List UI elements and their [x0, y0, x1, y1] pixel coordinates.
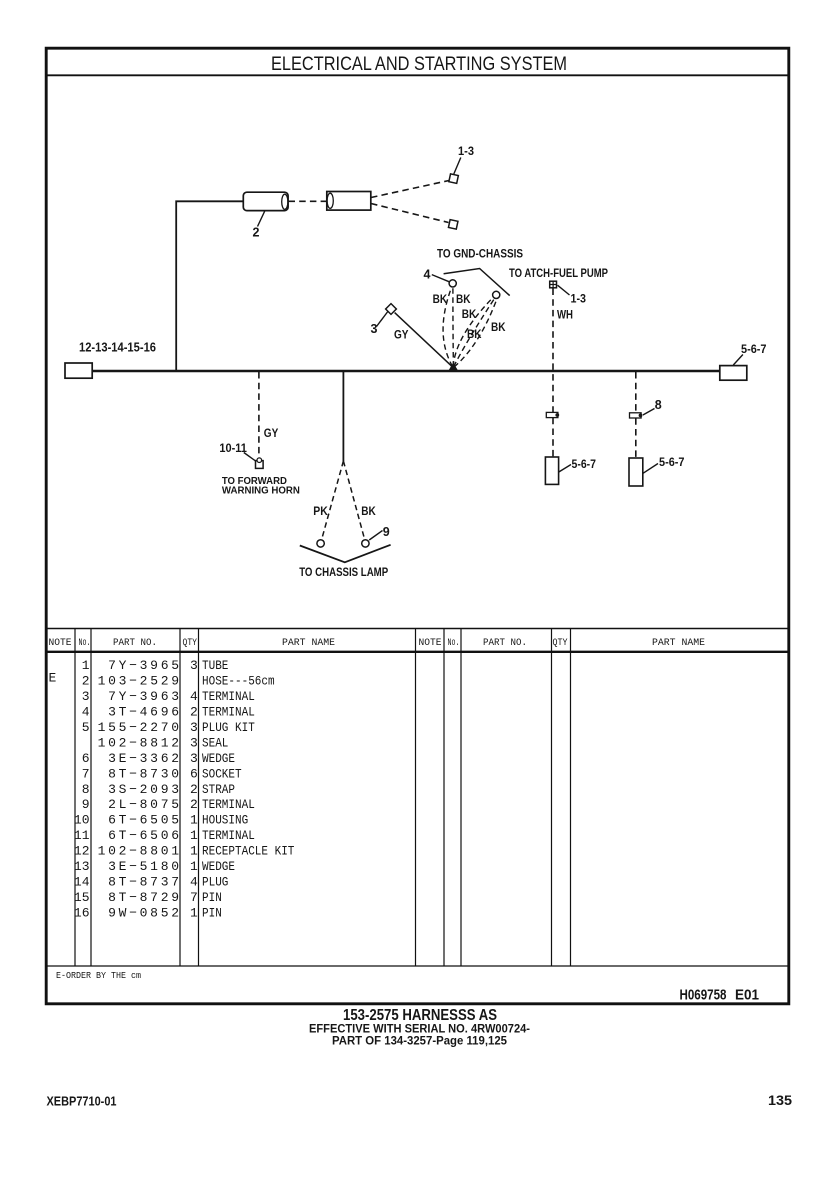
wire GY solid [395, 313, 453, 368]
svg-text:102−8812: 102−8812 [98, 736, 182, 751]
svg-text:9: 9 [82, 797, 90, 812]
wire WH dashed drop [552, 289, 554, 413]
connector 5-6-7 (fuel drop) [545, 457, 558, 484]
svg-text:6: 6 [82, 751, 90, 766]
leader for label 5-6-7 (fuel drop) [559, 465, 571, 473]
svg-text:BK: BK [462, 309, 477, 321]
svg-text:9: 9 [383, 525, 390, 539]
svg-text:GY: GY [264, 428, 279, 440]
svg-text:3: 3 [371, 322, 378, 336]
svg-text:SEAL: SEAL [202, 736, 228, 751]
svg-text:2: 2 [190, 705, 198, 720]
leader for label 2 [258, 211, 266, 227]
svg-text:8: 8 [82, 782, 90, 797]
connector square lower 1-3 [448, 220, 457, 229]
svg-text:TERMINAL: TERMINAL [202, 797, 255, 812]
svg-text:4: 4 [424, 268, 431, 282]
svg-text:135: 135 [768, 1093, 793, 1108]
svg-text:3: 3 [190, 720, 198, 735]
svg-text:12-13-14-15-16: 12-13-14-15-16 [79, 341, 156, 355]
pointer line TO GND-CHASSIS [444, 269, 510, 296]
inline connector 8 [630, 413, 643, 418]
wire GY dashed drop to horn [258, 372, 260, 457]
wire BK dashed (lamp) [343, 461, 364, 540]
svg-text:NOTE: NOTE [419, 638, 442, 649]
svg-text:102−8801: 102−8801 [98, 844, 182, 859]
svg-text:E: E [49, 671, 57, 686]
svg-text:ELECTRICAL AND STARTING SYSTEM: ELECTRICAL AND STARTING SYSTEM [271, 54, 567, 75]
svg-text:12: 12 [74, 844, 90, 859]
svg-text:PART NO.: PART NO. [483, 638, 527, 649]
svg-text:GY: GY [394, 329, 409, 341]
svg-text:WEDGE: WEDGE [202, 859, 235, 874]
svg-text:8T−8730: 8T−8730 [108, 766, 182, 781]
page frame [46, 48, 789, 1004]
svg-text:TO CHASSIS LAMP: TO CHASSIS LAMP [299, 567, 388, 579]
svg-text:NOTE: NOTE [49, 638, 72, 649]
svg-text:QTY: QTY [183, 638, 198, 649]
svg-text:6: 6 [190, 766, 198, 781]
svg-text:2: 2 [82, 674, 90, 689]
chevron pointer chassis lamp [300, 545, 391, 563]
connector 5-6-7 (right end) [720, 366, 747, 381]
svg-text:7Y−3965: 7Y−3965 [108, 658, 182, 673]
svg-text:3E−5180: 3E−5180 [108, 859, 182, 874]
svg-text:1: 1 [190, 813, 198, 828]
svg-text:WARNING HORN: WARNING HORN [222, 485, 300, 496]
svg-text:8T−8729: 8T−8729 [108, 890, 182, 905]
connector 12-13-14-15-16 [65, 363, 92, 378]
svg-text:5-6-7: 5-6-7 [659, 457, 685, 469]
svg-text:3: 3 [190, 658, 198, 673]
svg-text:BK: BK [456, 294, 471, 306]
svg-text:10: 10 [74, 813, 90, 828]
svg-text:4: 4 [190, 875, 198, 890]
svg-text:7: 7 [190, 890, 198, 905]
connector diamond 3 [386, 304, 397, 315]
svg-text:15: 15 [74, 890, 90, 905]
svg-text:PART OF 134-3257-Page 119,125: PART OF 134-3257-Page 119,125 [332, 1034, 507, 1048]
wire BK pair to ring 4 (right) [452, 288, 455, 367]
svg-text:3T−4696: 3T−4696 [108, 705, 182, 720]
svg-text:3E−3362: 3E−3362 [108, 751, 182, 766]
svg-text:1: 1 [190, 905, 198, 920]
leader for label 8 [643, 409, 655, 416]
svg-text:TERMINAL: TERMINAL [202, 705, 255, 720]
svg-text:TERMINAL: TERMINAL [202, 828, 255, 843]
connector 10-11 [256, 458, 264, 468]
svg-text:HOUSING: HOUSING [202, 813, 248, 828]
wire: dashed link between tubes [289, 200, 327, 202]
title separator line [45, 74, 790, 76]
svg-text:7Y−3963: 7Y−3963 [108, 689, 182, 704]
svg-text:2L−8075: 2L−8075 [108, 797, 182, 812]
table top border [45, 628, 790, 630]
table column lines [75, 629, 571, 967]
svg-text:BK: BK [491, 322, 506, 334]
connector 5-6-7 (drop 8) [629, 458, 643, 486]
svg-text:1: 1 [190, 859, 198, 874]
svg-text:PART NAME: PART NAME [282, 638, 335, 649]
svg-text:103−2529: 103−2529 [98, 674, 182, 689]
wire dashed drop 8 [635, 372, 637, 413]
svg-text:H069758: H069758 [680, 988, 727, 1004]
wire: left branch up to tube [176, 201, 243, 370]
svg-text:STRAP: STRAP [202, 782, 235, 797]
wire BK pair to ring 4 (left) [443, 288, 453, 367]
svg-text:SOCKET: SOCKET [202, 766, 242, 781]
leader for label 10-11 [244, 453, 256, 462]
svg-text:3: 3 [82, 689, 90, 704]
svg-text:1: 1 [190, 828, 198, 843]
svg-text:3S−2093: 3S−2093 [108, 782, 182, 797]
svg-text:9W−0852: 9W−0852 [108, 905, 182, 920]
svg-text:8T−8737: 8T−8737 [108, 875, 182, 890]
svg-text:WEDGE: WEDGE [202, 751, 235, 766]
leader for label 5-6-7 (right end) [733, 355, 743, 366]
wire BK 2 to ring (right) [454, 299, 495, 367]
table footer separator [45, 965, 790, 967]
svg-text:1-3: 1-3 [458, 146, 474, 158]
wire: dashed to upper connector 1-3 [371, 181, 449, 198]
ring terminal lamp right 9 [362, 540, 369, 547]
wire PK dashed [322, 461, 344, 540]
svg-text:BK: BK [361, 506, 376, 518]
svg-text:1: 1 [190, 844, 198, 859]
svg-text:BK: BK [433, 294, 448, 306]
table rows [49, 658, 295, 920]
svg-text:HOSE---56cm: HOSE---56cm [202, 674, 275, 689]
svg-text:QTY: QTY [553, 638, 568, 649]
svg-text:PART NAME: PART NAME [652, 638, 705, 649]
svg-text:2: 2 [190, 797, 198, 812]
leader for label 5-6-7 (drop 8) [643, 464, 658, 474]
tube 2 (left) [243, 192, 288, 210]
footer H069758 E01 [680, 988, 760, 1004]
svg-text:RECEPTACLE KIT: RECEPTACLE KIT [202, 844, 295, 859]
svg-text:PK: PK [313, 506, 328, 518]
svg-text:2: 2 [190, 782, 198, 797]
svg-text:14: 14 [74, 875, 90, 890]
inline connector on WH drop [546, 412, 559, 417]
svg-text:PART NO.: PART NO. [113, 638, 157, 649]
svg-text:3: 3 [190, 751, 198, 766]
ring terminal (right) [493, 291, 500, 298]
svg-text:WH: WH [557, 310, 573, 322]
table header separator [45, 651, 790, 653]
svg-text:E01: E01 [735, 988, 759, 1004]
svg-text:8: 8 [655, 398, 662, 412]
svg-text:11: 11 [74, 828, 90, 843]
svg-text:4: 4 [190, 689, 198, 704]
wire: main harness trunk [92, 370, 720, 373]
leader for label 9 [369, 531, 382, 541]
leader for label 4 [432, 275, 450, 282]
svg-text:16: 16 [74, 905, 90, 920]
svg-text:6T−6506: 6T−6506 [108, 828, 182, 843]
tube (right section) [327, 192, 371, 211]
svg-text:PLUG KIT: PLUG KIT [202, 720, 255, 735]
svg-text:TUBE: TUBE [202, 658, 229, 673]
svg-text:XEBP7710-01: XEBP7710-01 [47, 1093, 117, 1108]
wire BK 1 to ring (right) [453, 298, 492, 367]
svg-text:2: 2 [253, 226, 260, 240]
ring terminal 4 (left) [449, 280, 456, 287]
svg-text:1: 1 [82, 658, 90, 673]
connector square ATCH-FUEL PUMP [550, 281, 557, 288]
svg-text:TERMINAL: TERMINAL [202, 689, 255, 704]
wire: dashed to lower connector 1-3 [371, 204, 449, 223]
svg-text:3: 3 [190, 736, 198, 751]
leader for label 1-3 [454, 158, 461, 175]
wire solid drop to chassis lamp [342, 372, 344, 461]
svg-text:5-6-7: 5-6-7 [572, 459, 597, 471]
svg-text:E-ORDER BY THE cm: E-ORDER BY THE cm [56, 970, 141, 981]
ring terminal lamp left [317, 540, 324, 547]
svg-text:6T−6505: 6T−6505 [108, 813, 182, 828]
svg-text:5-6-7: 5-6-7 [741, 344, 767, 356]
svg-text:4: 4 [82, 705, 90, 720]
svg-text:155−2270: 155−2270 [98, 720, 182, 735]
junction blob at fan point [449, 363, 459, 371]
svg-text:No.: No. [79, 638, 91, 649]
svg-text:7: 7 [82, 766, 90, 781]
svg-text:1-3: 1-3 [571, 294, 587, 306]
svg-text:PIN: PIN [202, 890, 222, 905]
svg-text:PIN: PIN [202, 905, 222, 920]
leader for label 3 [377, 312, 388, 327]
svg-text:PLUG: PLUG [202, 875, 228, 890]
svg-text:10-11: 10-11 [219, 443, 247, 455]
svg-text:5: 5 [82, 720, 90, 735]
svg-text:No.: No. [448, 638, 460, 649]
table headers [49, 638, 706, 649]
wire BK 3 to ring (right) [454, 300, 497, 367]
leader for label 1-3 (fuel pump) [558, 285, 570, 295]
svg-text:13: 13 [74, 859, 90, 874]
connector square upper 1-3 [449, 174, 458, 183]
svg-text:BK: BK [467, 329, 482, 341]
svg-text:TO ATCH-FUEL PUMP: TO ATCH-FUEL PUMP [509, 268, 608, 280]
svg-text:TO GND-CHASSIS: TO GND-CHASSIS [437, 249, 523, 261]
